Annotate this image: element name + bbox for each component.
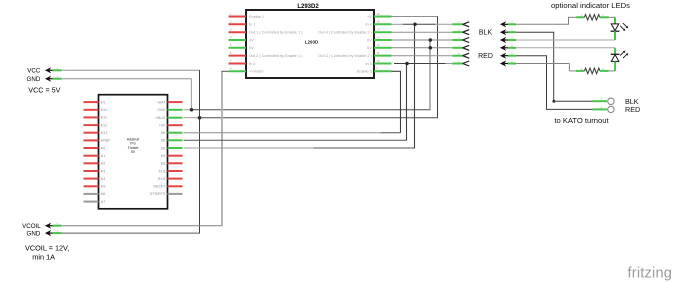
Trinket pin D5 xyxy=(161,146,183,150)
svg-text:2: 2 xyxy=(230,20,232,24)
svg-text:VCC = 5V: VCC = 5V xyxy=(28,85,60,94)
svg-text:D12: D12 xyxy=(101,123,108,127)
connector J3 pin 1 (male fork) xyxy=(452,21,469,27)
wire coil-GND vertical column xyxy=(199,118,201,233)
Trinket pin D4 xyxy=(161,154,183,158)
wire D8 row xyxy=(184,132,401,134)
svg-text:Out 3 ( Controlled by Enable 2: Out 3 ( Controlled by Enable 2 ) xyxy=(318,54,372,58)
wire GND row to 0V column xyxy=(192,109,431,111)
svg-text:RESET: RESET xyxy=(153,185,166,189)
Trinket pin +BAT xyxy=(156,100,182,104)
Trinket pin A6 xyxy=(84,192,106,196)
wire LED1 feed vertical xyxy=(568,17,570,24)
annotation optional indicator LEDs xyxy=(551,1,630,10)
connector J4 pin 6 (female arrow) xyxy=(500,60,516,66)
connector J4 pin 2 (female arrow) xyxy=(500,29,516,35)
Trinket pin D10 xyxy=(84,108,108,112)
wire RED row from header xyxy=(516,55,547,57)
Trinket pin A0 xyxy=(84,146,106,150)
wire VCC horizontal to VBUS column xyxy=(62,69,200,71)
IC U2 L293D body xyxy=(246,10,374,78)
annotation VCOIL = 12V, min 1A xyxy=(25,244,69,262)
svg-text:D8: D8 xyxy=(161,131,166,135)
L293D pin 3 Out 1 xyxy=(229,28,304,35)
connector J1 pin VCC (female arrow) xyxy=(45,67,62,73)
wire D8 to Enable 2 vertical xyxy=(400,71,402,132)
label L293D (part name) xyxy=(305,39,319,44)
svg-text:RXD: RXD xyxy=(158,177,166,181)
connector J3 pin 5 (male fork) xyxy=(452,53,469,59)
wire 0V pin12 row to header xyxy=(392,47,453,49)
L293D pin 2 In 1 xyxy=(229,20,256,27)
label Adafruit Pro Trinket 5V xyxy=(127,138,139,155)
Trinket pin A3 xyxy=(84,169,106,173)
Trinket pin D3 xyxy=(161,162,183,166)
svg-text:Out 2 ( Controlled by Enable 1: Out 2 ( Controlled by Enable 1 ) xyxy=(249,54,303,58)
svg-text:L293D2: L293D2 xyxy=(297,4,319,10)
Trinket pin RESET xyxy=(153,185,182,189)
L293D pin 5 0V xyxy=(229,43,255,50)
wire LED2 feed row xyxy=(516,63,569,65)
svg-text:0V: 0V xyxy=(249,46,254,50)
L293D pin 16 +V xyxy=(367,12,391,19)
L293D pin 13 0V xyxy=(367,35,391,42)
junction VBUS at Trinket xyxy=(198,116,202,120)
Trinket pin D8 xyxy=(161,131,183,135)
wire LED1 feed row xyxy=(516,23,569,25)
svg-text:4: 4 xyxy=(230,35,232,39)
L293D pin 9 Enable 2 xyxy=(357,67,392,74)
resistor R1 xyxy=(568,14,615,20)
wire D6 row xyxy=(184,139,408,141)
net label RED (turnout) xyxy=(625,105,640,114)
svg-text:min 1A: min 1A xyxy=(32,253,55,262)
wire +V vertical down to VBUS row xyxy=(437,17,439,118)
svg-text:D9: D9 xyxy=(101,100,106,104)
svg-text:GND: GND xyxy=(157,108,165,112)
svg-text:+V: +V xyxy=(367,15,372,19)
wire BLK bottom row xyxy=(552,100,592,103)
svg-text:15: 15 xyxy=(376,20,380,24)
wire coil-GND bottom horizontal xyxy=(62,232,200,234)
net label VCOIL xyxy=(22,223,41,230)
connector J4 pin 4 (female arrow) xyxy=(500,45,516,51)
connector J2 pin VCOIL (female arrow) xyxy=(45,223,62,229)
LED LED2 (cathode up) xyxy=(611,48,629,71)
svg-text:L293D: L293D xyxy=(305,39,319,44)
svg-text:Enable 2: Enable 2 xyxy=(357,70,372,74)
wire RED bottom row xyxy=(546,108,593,110)
junction 0V pin 13 xyxy=(429,38,433,42)
module U1 Adafruit Pro Trinket 5V body xyxy=(99,95,168,209)
svg-text:A5: A5 xyxy=(101,185,105,189)
Trinket pin +5V xyxy=(159,124,183,128)
svg-text:In 1: In 1 xyxy=(249,23,255,27)
junction In 3 / D6 xyxy=(405,62,409,66)
svg-text:VCOIL: VCOIL xyxy=(22,223,41,230)
svg-text:In 2: In 2 xyxy=(249,62,255,66)
svg-text:AREF: AREF xyxy=(101,139,111,143)
wire Enable 2 link xyxy=(392,70,402,72)
svg-text:A0: A0 xyxy=(101,146,105,150)
svg-text:optional indicator LEDs: optional indicator LEDs xyxy=(551,1,630,10)
svg-text:D4: D4 xyxy=(161,154,166,158)
svg-text:+Vmotor: +Vmotor xyxy=(249,70,264,74)
svg-text:VCC: VCC xyxy=(27,68,41,75)
Trinket pin TXD xyxy=(158,169,182,173)
svg-text:D10: D10 xyxy=(101,108,108,112)
L293D pin 12 0V xyxy=(367,43,391,50)
svg-text:D11: D11 xyxy=(101,116,107,120)
Trinket pin A5 xyxy=(84,185,106,189)
wire GND horizontal to GND column xyxy=(62,78,192,80)
svg-text:In 4: In 4 xyxy=(365,23,371,27)
svg-text:RED: RED xyxy=(625,105,640,114)
svg-text:In 3: In 3 xyxy=(365,62,371,66)
Trinket pin AREF xyxy=(84,139,112,143)
Trinket pin D9 xyxy=(84,100,106,104)
label L293D2 (instance title) xyxy=(297,4,319,10)
svg-text:Out 1 ( Controlled by Enable 1: Out 1 ( Controlled by Enable 1 ) xyxy=(249,31,303,35)
svg-text:GND: GND xyxy=(27,76,41,83)
svg-text:7: 7 xyxy=(230,59,232,63)
net label RED (header pair) xyxy=(478,53,493,60)
wire VCOIL vertical to +Vmotor xyxy=(221,71,223,225)
svg-text:A2: A2 xyxy=(101,162,105,166)
svg-text:9: 9 xyxy=(376,67,378,71)
svg-text:0V: 0V xyxy=(367,38,372,42)
Trinket pin DTR/RTS xyxy=(150,192,183,196)
Trinket pin D11 xyxy=(84,116,108,120)
connector J3 pin 6 (male fork) xyxy=(452,60,469,66)
svg-text:12: 12 xyxy=(376,43,380,47)
connector J3 pin 3 (male fork) xyxy=(452,37,469,43)
svg-text:D3: D3 xyxy=(161,162,166,166)
L293D pin 11 Out 3 xyxy=(318,51,391,58)
wire LED1 cathode row xyxy=(516,39,615,41)
connector J5 pin RED (round terminal) xyxy=(593,106,615,112)
wire 0V pin13 row to header xyxy=(392,39,453,41)
connector J4 pin 5 (female arrow) xyxy=(500,53,516,59)
wire In 3 row to header xyxy=(394,63,452,65)
svg-text:16: 16 xyxy=(376,12,380,16)
svg-text:fritzing: fritzing xyxy=(628,266,673,282)
svg-text:D5: D5 xyxy=(161,146,166,150)
L293D pin 1 Enable 1 xyxy=(229,12,265,19)
connector J4 pin 3 (female arrow) xyxy=(500,37,516,43)
wire GND vertical down to Trinket GND xyxy=(190,79,192,110)
wire VBUS row to +V column xyxy=(199,117,438,119)
svg-text:A7: A7 xyxy=(101,200,105,204)
wire In 4 row to header xyxy=(392,23,453,25)
svg-text:A3: A3 xyxy=(101,169,105,173)
svg-text:Enable 1: Enable 1 xyxy=(249,15,264,19)
svg-text:3: 3 xyxy=(230,28,232,32)
svg-text:VBUS: VBUS xyxy=(156,116,166,120)
wire D6 to In 3 vertical xyxy=(406,64,408,141)
net label GND xyxy=(27,76,41,83)
net label GND (coil return) xyxy=(27,231,41,238)
wire LED2 cathode row xyxy=(516,47,615,49)
wire Out 3 row to header xyxy=(392,55,453,57)
Trinket pin A1 xyxy=(84,154,106,158)
svg-text:D6: D6 xyxy=(161,139,166,143)
resistor R2 xyxy=(576,68,615,74)
svg-text:+BAT: +BAT xyxy=(156,100,166,104)
svg-text:VCOIL = 12V,: VCOIL = 12V, xyxy=(25,244,69,253)
svg-text:+5V: +5V xyxy=(159,124,166,128)
Trinket pin RXD xyxy=(158,177,183,181)
svg-text:6: 6 xyxy=(230,51,232,55)
wire D5 row (dark segment) xyxy=(314,147,416,149)
connector J5 pin BLK (round terminal) xyxy=(593,98,615,104)
Trinket pin D6 xyxy=(161,139,183,143)
svg-text:5V: 5V xyxy=(131,150,136,154)
junction In 4 / D5 xyxy=(413,23,417,27)
net label VCC xyxy=(27,68,41,75)
svg-text:11: 11 xyxy=(376,51,379,55)
wire +V row xyxy=(392,16,439,18)
svg-text:A4: A4 xyxy=(101,177,105,181)
svg-text:13: 13 xyxy=(376,35,380,39)
wire LED2 feed elbow xyxy=(569,64,576,71)
Trinket pin D12 xyxy=(84,123,108,127)
svg-text:RED: RED xyxy=(478,53,493,60)
L293D pin 6 Out 2 xyxy=(229,51,304,58)
L293D pin 10 In 3 xyxy=(365,59,391,66)
wire D5 to In 4 vertical xyxy=(414,24,416,148)
L293D pin 8 +Vmotor xyxy=(229,67,265,74)
connector J3 pin 4 (male fork) xyxy=(452,45,469,51)
svg-text:A6: A6 xyxy=(101,192,105,196)
svg-text:DTR/RTS: DTR/RTS xyxy=(150,192,166,196)
annotation VCC = 5V xyxy=(28,85,60,94)
connector J1 pin GND (female arrow) xyxy=(45,76,62,82)
wire VCOIL horizontal xyxy=(62,225,223,227)
wire Out 4 row to header xyxy=(392,31,453,33)
Trinket pin A7 xyxy=(84,200,106,204)
svg-text:D13: D13 xyxy=(101,131,108,135)
L293D pin 7 In 2 xyxy=(229,59,256,66)
svg-text:1: 1 xyxy=(230,12,232,16)
L293D pin 4 0V xyxy=(229,35,255,42)
Trinket pin VBUS xyxy=(156,116,183,120)
LED LED1 (cathode down) xyxy=(611,17,629,40)
wire Trinket VBUS stub to junction xyxy=(184,117,200,119)
svg-text:TXD: TXD xyxy=(158,169,166,173)
annotation to KATO turnout xyxy=(554,116,609,125)
svg-text:14: 14 xyxy=(376,28,380,32)
svg-text:8: 8 xyxy=(230,67,232,71)
svg-text:A1: A1 xyxy=(101,154,105,158)
wire +Vmotor stub link xyxy=(222,70,229,72)
connector J2 pin GND (female arrow) xyxy=(45,230,62,236)
svg-text:5: 5 xyxy=(230,43,232,47)
net label BLK (turnout) xyxy=(625,97,639,106)
wire RED vertical xyxy=(546,56,548,110)
svg-text:0V: 0V xyxy=(367,46,372,50)
wire D5 row (light segment) xyxy=(184,147,314,149)
wire BLK vertical xyxy=(553,32,555,101)
junction GND at Trinket xyxy=(190,108,194,112)
wire GND vertical up to 0V pins xyxy=(429,40,431,110)
connector J3 pin 2 (male fork) xyxy=(452,29,469,35)
svg-text:0V: 0V xyxy=(249,38,254,42)
junction 0V pin 12 xyxy=(429,46,433,50)
wire Trinket GND stub to junction xyxy=(184,109,192,111)
net label BLK (header pair) xyxy=(479,30,493,37)
svg-text:BLK: BLK xyxy=(479,30,493,37)
svg-text:10: 10 xyxy=(376,59,380,63)
svg-text:Out 4 ( Controlled by Enable 2: Out 4 ( Controlled by Enable 2 ) xyxy=(318,31,372,35)
svg-text:to KATO turnout: to KATO turnout xyxy=(554,116,609,125)
Trinket pin D13 xyxy=(84,131,108,135)
wire VCC vertical down to VBUS junction xyxy=(199,70,201,117)
Trinket pin A2 xyxy=(84,162,106,166)
svg-text:GND: GND xyxy=(27,231,41,238)
L293D pin 15 In 4 xyxy=(365,20,391,27)
Trinket pin GND xyxy=(157,108,182,112)
Trinket pin A4 xyxy=(84,177,106,181)
fritzing logo xyxy=(628,266,673,282)
connector J4 pin 1 (female arrow) xyxy=(500,21,516,27)
L293D pin 14 Out 4 xyxy=(318,28,391,35)
wire BLK row from header xyxy=(516,31,554,33)
